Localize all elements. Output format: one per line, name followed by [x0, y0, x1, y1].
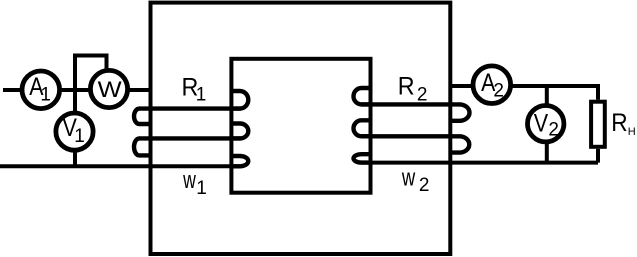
svg-text:2: 2	[419, 175, 430, 196]
svg-text:W: W	[98, 77, 122, 102]
svg-text:1: 1	[196, 84, 207, 105]
svg-text:V: V	[534, 109, 549, 137]
svg-text:w: w	[182, 167, 196, 194]
svg-text:1: 1	[74, 126, 85, 147]
svg-text:H: H	[628, 126, 636, 138]
svg-text:1: 1	[196, 178, 207, 199]
svg-text:R: R	[398, 73, 415, 101]
svg-text:2: 2	[417, 84, 428, 105]
svg-text:1: 1	[40, 84, 51, 105]
svg-text:w: w	[401, 165, 416, 192]
svg-text:2: 2	[493, 81, 504, 102]
svg-text:2: 2	[548, 119, 559, 140]
svg-text:R: R	[611, 109, 627, 137]
